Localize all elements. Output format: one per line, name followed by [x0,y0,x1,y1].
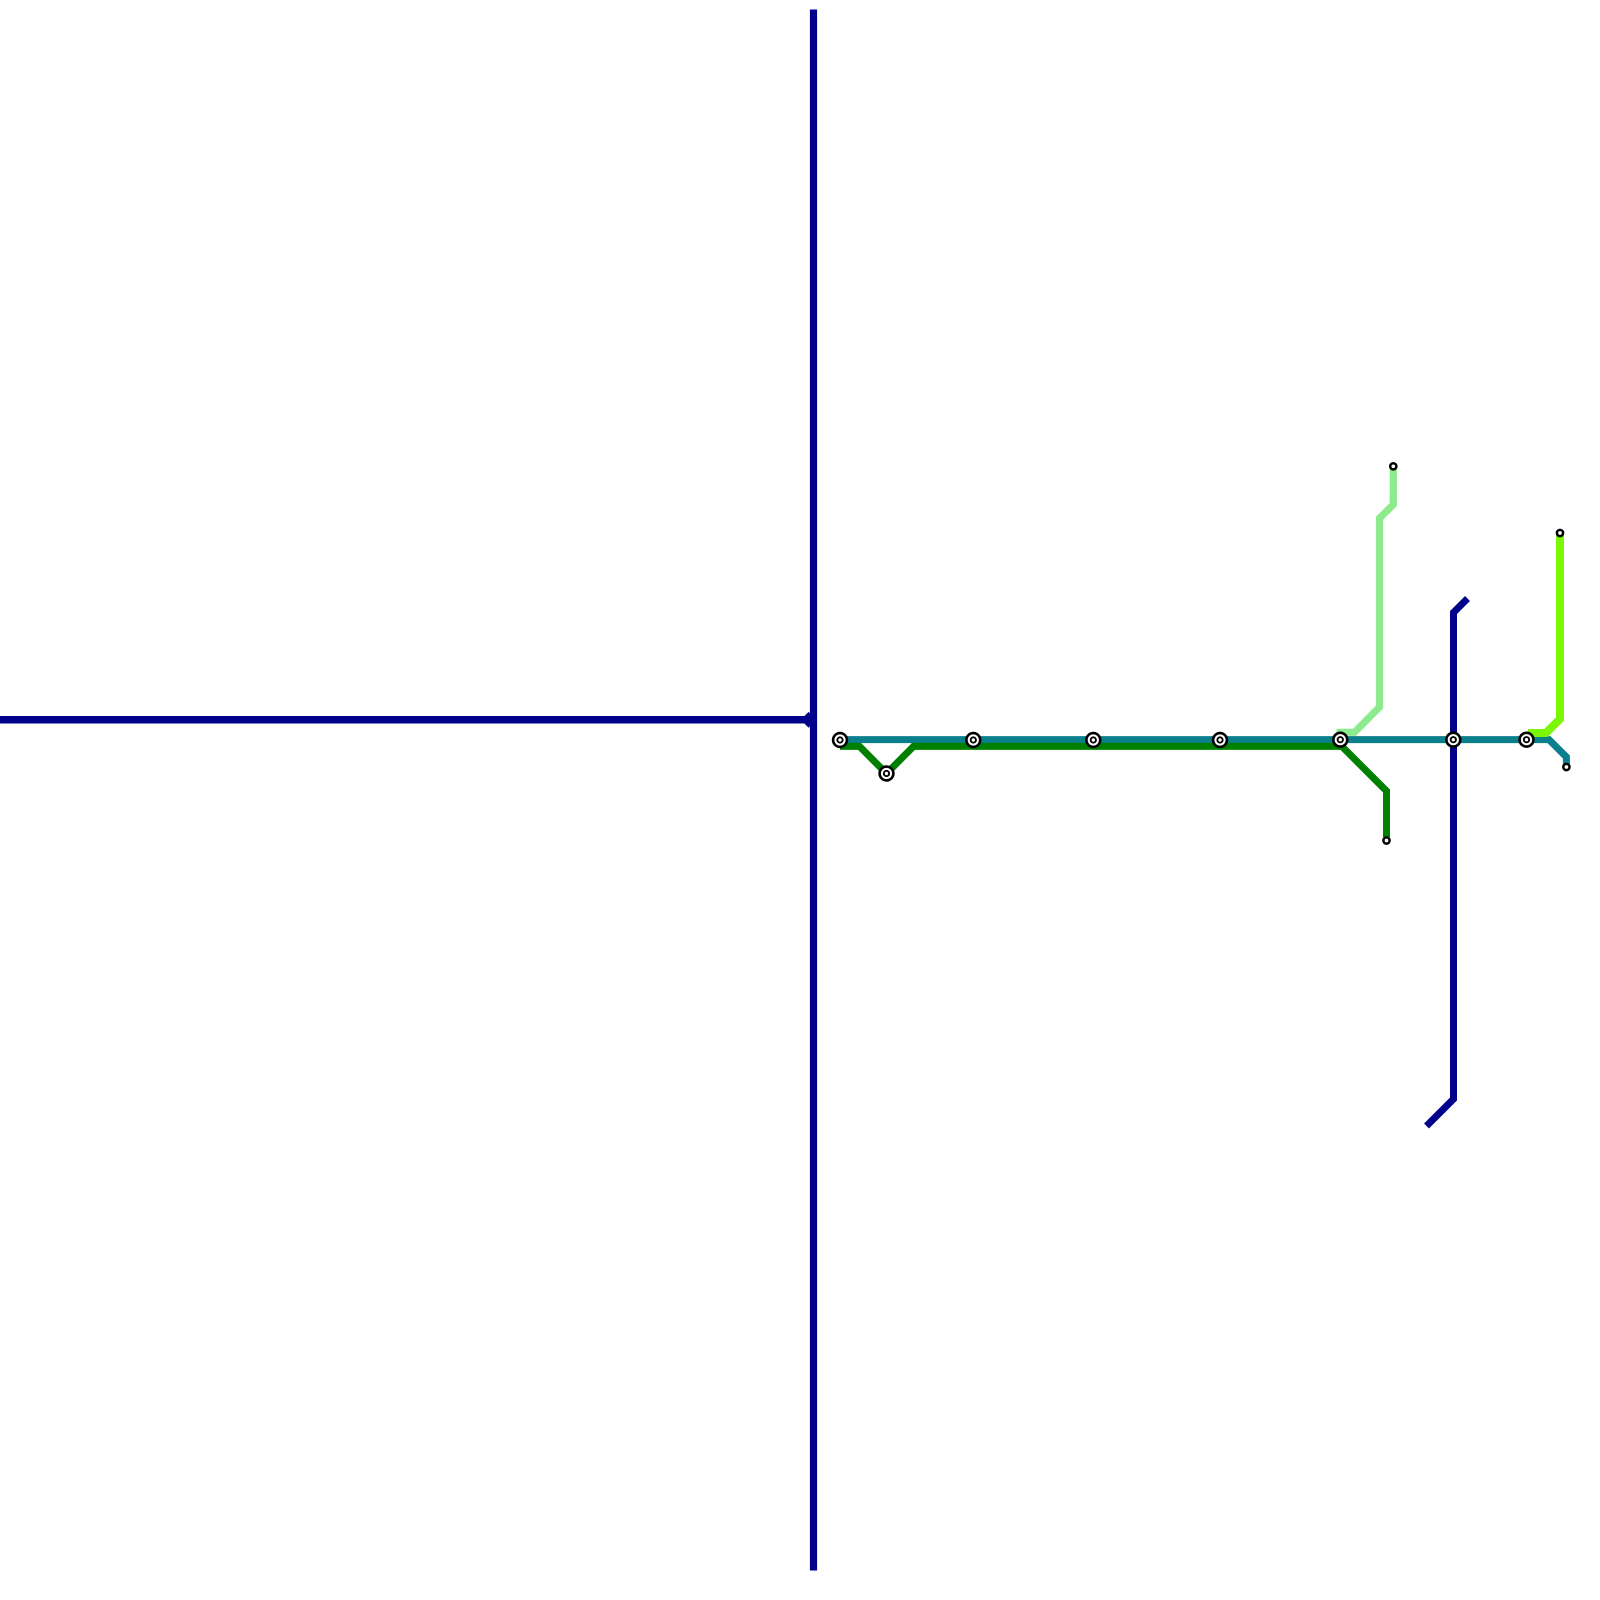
station G (navy east crossing) [1446,733,1460,747]
terminus dot lawngreen top [1557,530,1563,536]
station C [966,733,980,747]
lawngreen line (far NE branch) [1528,535,1560,733]
station A (west terminus interchange) [833,733,847,747]
green line (main with V dip and SE branch) [840,746,1340,773]
terminus dot green SE branch [1383,837,1389,843]
station B (V dip) [880,767,894,781]
navy line North-South trunk (vertical) [810,10,817,1571]
station E [1213,733,1227,747]
teal line (main horizontal, bends down at east end) [840,740,1566,764]
navy line East branch (vertical with angled ends) [1427,599,1468,1127]
navy line West branch (horizontal) [0,716,810,724]
green line SE branch [1340,745,1387,838]
station H (lawngreen interchange) [1520,733,1534,747]
terminus dot lightgreen top [1390,463,1396,469]
terminus dot teal east end [1563,764,1569,770]
station D [1086,733,1100,747]
navy junction diamond node [801,712,817,728]
station F (interchange with branches) [1333,733,1347,747]
lightgreen line (NE branch into interchange) [1337,468,1394,732]
